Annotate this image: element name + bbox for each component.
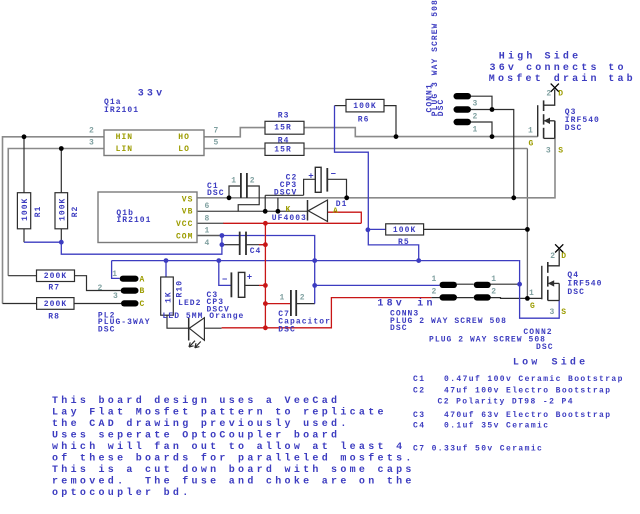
connector PL2 pin A pad: [120, 276, 139, 282]
connector CONN1 pin 3 pad: [454, 93, 472, 99]
capacitor C2 electrolytic: [315, 167, 321, 192]
svg-text:in: in: [417, 298, 435, 310]
svg-text:R8: R8: [48, 313, 60, 322]
node bus COM-drop junction: [312, 258, 317, 263]
wire R3 to Q3 gate: [304, 128, 538, 137]
node VB junction b: [276, 209, 281, 214]
wire VS row net: [197, 121, 555, 198]
capacitor C1: [240, 173, 242, 198]
diode D1 UF4003: [307, 200, 309, 221]
svg-text:removed. The fuse and choke a: removed. The fuse and choke are on the: [52, 475, 415, 487]
wire VCC red row: [223, 222, 361, 224]
svg-text:of these boards for paralleled: of these boards for paralleled mosfets.: [52, 452, 415, 464]
svg-text:1: 1: [529, 289, 535, 298]
connector CONN1 pin 2 pad: [454, 106, 472, 112]
wire bus to R10: [165, 261, 167, 277]
svg-text:1: 1: [528, 126, 534, 135]
node HIN-R1 junction: [22, 134, 27, 139]
svg-text:100K: 100K: [393, 226, 416, 235]
wire R4 to Q4 gate column: [304, 148, 527, 150]
svg-text:connects: connects: [526, 63, 600, 74]
svg-text:2: 2: [473, 113, 479, 122]
wire C2 left lead: [304, 179, 316, 195]
wire HO to R3: [204, 128, 265, 137]
svg-text:3: 3: [546, 146, 552, 155]
svg-text:LO: LO: [178, 145, 190, 154]
svg-text:R6: R6: [358, 115, 370, 124]
svg-text:200K: 200K: [44, 272, 67, 281]
wire CONN1 pin2 stub: [471, 109, 492, 111]
wire VCC red column: [264, 223, 266, 327]
svg-text:2: 2: [432, 288, 438, 297]
wire R1 bottom lead: [23, 229, 25, 242]
wire C7 to CONN3 pin1 line: [315, 284, 440, 286]
node bus C3 junction: [216, 258, 221, 263]
wire VB risers to C2 line: [264, 195, 266, 211]
capacitor C3 electrolytic: [230, 272, 232, 297]
svg-text:COM: COM: [176, 233, 194, 242]
svg-text:DSC: DSC: [536, 343, 554, 352]
svg-text:3: 3: [113, 292, 119, 301]
svg-text:DSC: DSC: [278, 325, 296, 334]
wire R6 right lead to HO node: [384, 106, 396, 137]
wire LED red lead: [222, 327, 266, 329]
wire C3 right lead stub: [245, 284, 259, 286]
svg-text:DSC: DSC: [207, 189, 225, 198]
wire VB row: [197, 210, 308, 212]
no-connect X mark Q4 drain: [555, 244, 563, 252]
svg-text:C2 47uf 100v Electro Bootstr: C2 47uf 100v Electro Bootstrap: [413, 386, 611, 395]
svg-text:1: 1: [432, 275, 438, 284]
node R6-HO junction: [394, 134, 399, 139]
svg-text:DSC: DSC: [390, 324, 408, 333]
wire R7 to PL2 pin B: [75, 276, 121, 291]
svg-text:DSC: DSC: [565, 124, 583, 133]
wire LED anode lead: [204, 327, 221, 329]
svg-text:1K: 1K: [164, 291, 173, 303]
svg-text:2: 2: [550, 252, 556, 261]
svg-text:Low: Low: [513, 357, 541, 368]
svg-text:1: 1: [205, 227, 211, 236]
svg-text:15R: 15R: [274, 145, 292, 154]
node CONN1 2-3 junction: [490, 107, 495, 112]
svg-text:which will fan out to allow at: which will fan out to allow at least 4: [52, 441, 405, 453]
wire R5 right lead: [424, 228, 528, 230]
node CONN1 pin1 junction: [490, 134, 495, 139]
svg-text:G: G: [529, 140, 535, 149]
svg-text:VS: VS: [182, 195, 194, 204]
svg-text:A: A: [140, 275, 146, 284]
wire bus to PL2 pin A: [112, 261, 120, 279]
wire C4 red stub: [259, 244, 265, 246]
wire C1 left lead and riser: [229, 186, 241, 198]
node R5 left junction: [366, 227, 371, 232]
svg-text:the CAD drawing previously use: the CAD drawing previously used.: [52, 418, 350, 430]
svg-text:1: 1: [473, 126, 479, 135]
node R1R2 tie junction: [59, 240, 64, 245]
svg-text:+: +: [247, 272, 252, 282]
wire VCC stub: [197, 222, 224, 224]
svg-text:7: 7: [214, 127, 220, 136]
wire R6R5 net to bus: [368, 230, 418, 261]
node C3 red junction: [263, 283, 268, 288]
transistor Q4 IRF540: [541, 266, 543, 300]
node Q4 gate junction: [525, 296, 530, 301]
svg-text:VB: VB: [182, 208, 194, 217]
node C4 left junction: [220, 242, 225, 247]
resistor R1 100K: [17, 193, 30, 229]
wire CONN1 pin3 to pin2 node: [471, 96, 492, 109]
svg-text:1: 1: [231, 176, 237, 185]
wire Q3 source lead: [554, 121, 556, 139]
svg-text:2: 2: [250, 176, 256, 185]
svg-text:drain: drain: [554, 73, 600, 85]
svg-text:−: −: [222, 275, 227, 285]
svg-text:VCC: VCC: [176, 220, 194, 229]
wire CONN2 pin1 right lead: [491, 283, 520, 285]
connector CONN2 pin 2 pad: [474, 294, 491, 300]
wire R2 bottom lead: [60, 229, 62, 242]
svg-text:33v: 33v: [138, 88, 166, 99]
wire C2 plus line: [265, 194, 303, 196]
wire R7 left lead: [8, 275, 36, 277]
svg-text:2: 2: [491, 288, 497, 297]
svg-text:2: 2: [300, 293, 306, 302]
wire CONN1 node to VS column: [492, 110, 514, 198]
svg-text:Side: Side: [552, 356, 589, 368]
svg-text:100K: 100K: [21, 198, 30, 221]
wire D1 anode step: [328, 212, 362, 223]
svg-text:A: A: [333, 207, 339, 216]
svg-text:HIN: HIN: [116, 133, 134, 142]
resistor R3 15R: [265, 121, 304, 134]
svg-text:B: B: [140, 287, 146, 296]
wire CONN3 pin2 to CONN2 pin2: [457, 297, 474, 299]
svg-text:C4: C4: [250, 247, 262, 256]
svg-text:This is a cut down board with: This is a cut down board with some caps: [52, 464, 415, 476]
wire CONN3 pin2 stub: [431, 297, 439, 299]
svg-text:Lay Flat Mosfet pattern to rep: Lay Flat Mosfet pattern to replicate: [52, 406, 387, 418]
svg-text:LED2: LED2: [178, 299, 201, 308]
svg-text:optocoupler bd.: optocoupler bd.: [52, 487, 192, 499]
svg-text:UF4003: UF4003: [272, 214, 307, 223]
LED LED2 5MM Orange symbol: [188, 318, 190, 341]
connector CONN3 pin 1 pad: [440, 282, 458, 288]
svg-text:S: S: [561, 308, 567, 317]
wire C1 right lead S-route to VB: [238, 186, 259, 211]
svg-text:3: 3: [473, 99, 479, 108]
op-amp U Q1a IR2101 gate driver box: [104, 130, 204, 156]
svg-text:C4 0.1uf 35v Ceramic: C4 0.1uf 35v Ceramic: [413, 421, 549, 430]
node C7 red junction: [263, 301, 268, 306]
svg-text:15R: 15R: [274, 124, 292, 133]
wire HIN row net: [3, 137, 105, 304]
resistor R5 100K: [386, 224, 424, 235]
wire red to 18v in row: [265, 298, 431, 328]
svg-text:+: +: [308, 172, 313, 182]
svg-text:HO: HO: [178, 133, 190, 142]
svg-text:3: 3: [89, 139, 95, 148]
svg-text:Mosfet: Mosfet: [489, 73, 544, 85]
svg-text:S: S: [558, 146, 564, 155]
wire R1-R2 tie net: [24, 241, 61, 243]
wire C2 right lead to VS: [327, 179, 346, 198]
wire bus to C3: [219, 261, 232, 286]
wire C3 red stub: [259, 284, 265, 286]
svg-text:R7: R7: [48, 283, 60, 292]
svg-text:C: C: [140, 300, 146, 309]
connector PL2 pin C pad: [121, 300, 139, 306]
svg-text:200K: 200K: [44, 300, 67, 309]
svg-text:3: 3: [550, 308, 556, 317]
svg-text:8: 8: [205, 214, 211, 223]
svg-text:DSC: DSC: [437, 99, 446, 117]
svg-text:LIN: LIN: [116, 145, 134, 154]
resistor R8 200K: [37, 298, 74, 310]
wire CONN3 pin1 to CONN2 pin1: [457, 283, 474, 285]
resistor R6 100K: [346, 99, 384, 112]
wire C4 left lead: [224, 244, 240, 246]
svg-text:100K: 100K: [353, 102, 376, 111]
svg-text:2: 2: [89, 127, 95, 136]
resistor R7 200K: [37, 270, 75, 282]
node CONN3 pin1 junction: [312, 283, 317, 288]
svg-text:C1 0.47uf 100v Ceramic Boots: C1 0.47uf 100v Ceramic Bootstrap: [413, 375, 624, 384]
resistor R2 100K: [55, 193, 68, 229]
svg-text:PLUG 2 WAY SCREW 508: PLUG 2 WAY SCREW 508: [429, 335, 546, 344]
svg-text:DSC: DSC: [98, 325, 116, 334]
capacitor C7: [290, 290, 292, 316]
node C2-VS junction: [344, 195, 349, 200]
wire CONN1 pin1 stub: [471, 122, 492, 137]
wire R6 left lead: [335, 105, 347, 107]
svg-text:C2 Polarity DT98 -2 P4: C2 Polarity DT98 -2 P4: [438, 398, 574, 407]
LED light arrows: [189, 341, 195, 347]
connector PL2 pin B pad: [121, 288, 139, 294]
svg-text:6: 6: [205, 202, 211, 211]
svg-text:R2: R2: [71, 206, 80, 218]
wire LIN row net: [8, 149, 104, 276]
svg-text:IR2101: IR2101: [104, 106, 139, 115]
wire LO row to R4: [204, 148, 265, 150]
op-amp U Q1b IR2101 box: [98, 192, 197, 243]
svg-text:36v: 36v: [490, 63, 518, 74]
wire R10 bottom lead to LED: [167, 315, 188, 328]
wire bus to CONN2 pin1 and Q4 source: [519, 261, 560, 319]
svg-text:This board design uses a VeeCa: This board design uses a VeeCad: [52, 395, 340, 407]
node VCC red junction: [263, 221, 268, 226]
node C4 red junction: [263, 242, 268, 247]
connector CONN1 pin 1 pad: [454, 119, 472, 125]
svg-text:R4: R4: [278, 137, 290, 146]
wire R6 net down: [335, 106, 369, 230]
svg-text:IR2101: IR2101: [116, 216, 151, 225]
resistor R4 15R: [265, 143, 304, 155]
node COM junction: [220, 233, 225, 238]
node R5-LO junction: [525, 227, 530, 232]
svg-text:Uses seperate OptoCoupler boar: Uses seperate OptoCoupler board: [52, 429, 340, 441]
svg-text:LED 5MM Orange: LED 5MM Orange: [163, 312, 245, 321]
wire COM net to bus: [222, 236, 315, 304]
wire CONN2 pin2 to Q4 gate: [491, 297, 542, 300]
node VB junction a: [263, 209, 268, 214]
svg-text:1: 1: [112, 270, 118, 279]
svg-text:2: 2: [98, 284, 104, 293]
svg-text:2: 2: [546, 90, 552, 99]
svg-text:DSC: DSC: [567, 288, 585, 297]
node LED red junction: [263, 325, 268, 330]
svg-text:K: K: [286, 206, 292, 215]
wire ground bus: [112, 260, 519, 262]
node LIN-R2 junction: [59, 146, 64, 151]
node CONN1-VS junction: [511, 195, 516, 200]
svg-text:High: High: [499, 51, 536, 63]
svg-text:tab: tab: [608, 73, 636, 85]
svg-text:C7 0.33uf 50v Ceramic: C7 0.33uf 50v Ceramic: [413, 445, 543, 454]
wire C4 right lead: [246, 244, 264, 246]
no-connect X mark Q3 drain: [551, 84, 559, 92]
svg-text:18v: 18v: [377, 299, 405, 310]
svg-text:4: 4: [205, 239, 211, 248]
wire Q4 source lead: [558, 283, 560, 300]
svg-text:D: D: [561, 252, 567, 261]
svg-text:−: −: [331, 170, 336, 180]
svg-text:1: 1: [280, 293, 286, 302]
node C1-VS junction: [227, 195, 232, 200]
wire R8 to PL2 pin C: [74, 303, 121, 305]
wire R5 left lead: [368, 228, 385, 230]
svg-text:R10: R10: [176, 280, 185, 298]
node CONN2 pin1 junction: [517, 282, 522, 287]
svg-text:G: G: [530, 302, 536, 311]
wire C7 left lead red: [265, 303, 291, 305]
wire C7 right lead stub: [296, 303, 315, 305]
connector CONN2 pin 1 pad: [474, 282, 491, 288]
svg-text:to: to: [608, 63, 626, 74]
svg-text:D: D: [558, 90, 564, 99]
resistor R10 1K: [161, 277, 174, 315]
wire R1 top lead: [23, 137, 25, 193]
svg-text:DSCV: DSCV: [274, 189, 297, 198]
capacitor C4: [239, 232, 241, 255]
wire R8 left lead: [3, 303, 37, 305]
svg-text:R5: R5: [398, 238, 410, 247]
svg-text:5: 5: [214, 139, 220, 148]
svg-text:Side: Side: [545, 51, 582, 63]
wire R1R2 to C4/COM riser: [61, 236, 222, 255]
connector CONN3 pin 2 pad: [440, 294, 458, 300]
svg-text:C3 470uf 63v Electro Bootstr: C3 470uf 63v Electro Bootstrap: [413, 411, 611, 420]
transistor Q3 IRF540: [537, 105, 539, 136]
node bus R10 junction: [164, 258, 169, 263]
svg-text:1: 1: [491, 275, 497, 284]
wire R2 top lead: [60, 149, 62, 193]
node bus R5R6 junction: [416, 258, 421, 263]
wire COM stub: [197, 235, 222, 237]
svg-text:100K: 100K: [59, 198, 68, 221]
svg-text:R1: R1: [34, 206, 43, 218]
svg-text:R3: R3: [278, 112, 290, 121]
